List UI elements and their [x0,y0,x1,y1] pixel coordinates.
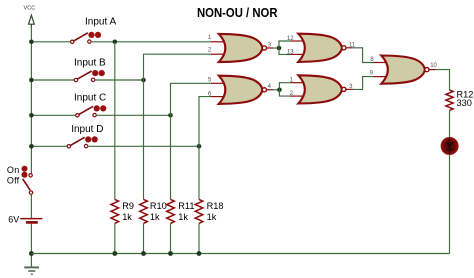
op-amp gate U1 A NOR (pins 1,2 out 3) [219,34,267,62]
pin stub 1 U1 [211,41,225,43]
wire input A row [31,41,70,43]
wire switch to battery [30,194,32,218]
pin stub 13 [291,53,305,55]
svg-text:Input C: Input C [74,93,106,104]
pin stub 12 [291,40,305,42]
switch Input A [71,32,102,44]
pin stub 1 U4 [291,82,305,84]
pin stub 2 U4 [291,95,305,97]
svg-text:6V: 6V [8,215,19,225]
svg-text:Input A: Input A [85,16,116,27]
wire A switch to gate pin 1 [91,41,211,43]
wire to pin 1 U4 [279,83,290,90]
node out4 junction [277,88,282,93]
node R18 bottom [197,251,202,256]
wire R9 to bottom [114,223,116,253]
op switch On/Off [7,165,33,194]
wire to pin 12 [279,41,291,48]
gate U4 NOR (pins 1,2 out 3) [298,75,346,103]
node B junction [141,78,146,83]
svg-text:330: 330 [457,98,472,108]
wire B dropper to R10 [143,80,145,199]
pin stub 2 U1 [211,53,225,55]
wire left VCC rail [30,26,32,173]
node bottom-left junction [29,251,34,256]
svg-text:VCC: VCC [24,6,36,12]
gate U3 NOR (pins 12,13 out 11) [298,34,346,62]
wire R10 to bottom [143,223,145,253]
svg-text:R9: R9 [122,201,134,211]
svg-text:1k: 1k [122,212,132,222]
pin stub 9 [374,76,388,78]
node out3 junction [277,46,282,51]
wire input C row [31,114,75,116]
node D junction [197,144,202,149]
wire D switch to junction [88,145,199,147]
pin stub 5 U1 [211,82,225,84]
wire C switch to junction [96,114,171,116]
wire D dropper to R18 [198,146,200,199]
svg-text:1k: 1k [150,212,160,222]
wire out10 to R12 [429,69,436,71]
wire to pin 13 [279,48,291,54]
wire battery to bottom rail [30,224,32,267]
svg-text:R11: R11 [178,201,194,211]
svg-text:1k: 1k [178,212,188,222]
wire C up to pin 5 [171,83,212,115]
wire B switch to junction [95,79,144,81]
svg-text:NON-OU / NOR: NON-OU / NOR [197,6,278,20]
svg-text:R18: R18 [207,201,224,211]
svg-text:1k: 1k [207,212,217,222]
node rail-A junction [29,40,34,45]
svg-text:Input B: Input B [74,58,106,69]
wire bottom rail [31,253,449,255]
node R9 bottom [112,251,117,256]
wire input D row [31,145,67,147]
gate U2 NOR (pins 5,6 out 4) [219,76,267,104]
wire out3 U4 to pin 9 [346,88,353,90]
node rail-D junction [29,144,34,149]
node A dropper junction [113,40,118,45]
wire input B row [31,79,74,81]
svg-text:Off: Off [7,175,20,185]
wire R11 to bottom [170,223,172,253]
switch Input C [76,105,107,117]
node R11 bottom [168,251,173,256]
node rail-C junction [29,113,34,118]
wire to pin 2 U4 [279,90,290,96]
svg-text:10: 10 [430,63,437,69]
wire A dropper to R9 [114,42,116,200]
svg-text:On: On [7,165,20,175]
gate U5 NOR (pins 8,9 out 10) [381,56,429,84]
wire out11 to pin 8 [346,47,353,49]
switch Input D [67,136,98,148]
wire C dropper to R11 [170,115,172,199]
battery 6V [8,215,42,225]
resistor R10 [140,199,167,223]
wire D up to pin 6 [199,97,211,147]
pin stub 8 [374,62,388,64]
wire B up to pin 2 [144,54,212,80]
wire out3 to gate U3 inputs [267,47,274,49]
wire R12 to LED [449,110,451,138]
power symbol VCC [24,6,36,29]
wire LED to bottom rail [449,154,451,253]
ground [24,267,39,274]
switch Input B [74,70,105,82]
node rail-B junction [29,78,34,83]
LED D1 [441,138,458,155]
resistor R12 [446,89,473,110]
node C junction [168,113,173,118]
pin stub 6 U1 [211,96,225,98]
svg-text:13: 13 [287,49,294,55]
resistor R9 [111,199,134,223]
resistor R18 [195,199,223,223]
node R10 bottom [141,251,146,256]
wire out4 to gate U4 inputs [267,89,274,91]
svg-text:12: 12 [287,36,294,42]
wire R18 to bottom [198,223,200,253]
svg-text:Input D: Input D [71,124,103,135]
resistor R11 [167,199,195,223]
svg-text:R10: R10 [150,201,167,211]
